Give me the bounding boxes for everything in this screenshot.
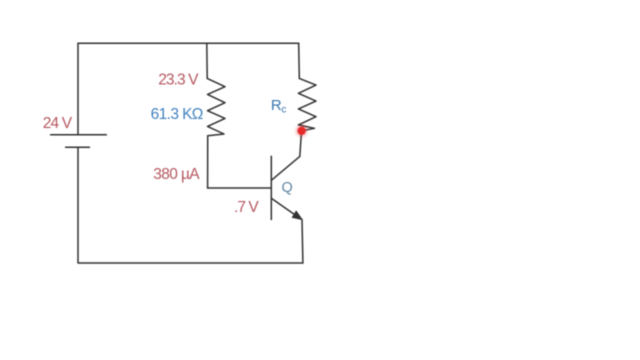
svg-text:Q: Q — [282, 180, 293, 196]
svg-text:23.3 V: 23.3 V — [158, 72, 199, 89]
svg-text:.7 V: .7 V — [234, 199, 259, 216]
svg-text:24 V: 24 V — [43, 115, 73, 132]
svg-text:R: R — [271, 97, 282, 114]
svg-text:380 µA: 380 µA — [153, 166, 200, 183]
svg-text:61.3 KΩ: 61.3 KΩ — [151, 106, 204, 123]
svg-text:c: c — [281, 105, 286, 116]
